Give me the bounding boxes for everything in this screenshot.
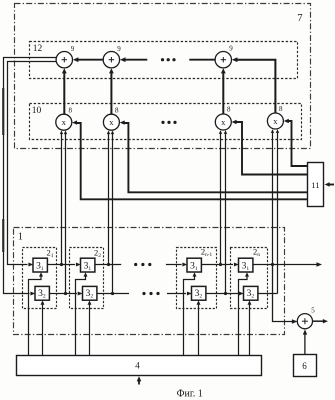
svg-text:8: 8	[115, 107, 119, 115]
svg-text:9: 9	[229, 45, 233, 53]
svg-text:9: 9	[71, 45, 75, 53]
svg-text:Фиг. 1: Фиг. 1	[177, 388, 203, 399]
svg-text:11: 11	[311, 180, 319, 190]
svg-text:9: 9	[117, 45, 121, 53]
svg-text:12: 12	[33, 44, 43, 54]
svg-text:8: 8	[227, 106, 231, 114]
svg-text:8: 8	[279, 105, 283, 113]
svg-text:x: x	[221, 117, 226, 127]
svg-text:x: x	[109, 117, 114, 127]
svg-text:8: 8	[69, 107, 73, 115]
svg-text:10: 10	[32, 106, 42, 116]
svg-text:4: 4	[135, 361, 140, 371]
svg-text:x: x	[273, 116, 278, 126]
svg-text:6: 6	[302, 361, 307, 371]
svg-text:5: 5	[311, 307, 315, 315]
svg-text:x: x	[62, 117, 67, 127]
svg-text:1: 1	[18, 232, 23, 243]
svg-text:7: 7	[297, 13, 302, 24]
